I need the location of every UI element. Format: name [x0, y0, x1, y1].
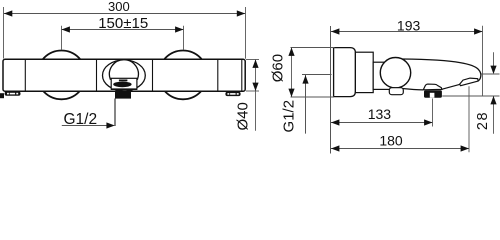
spout tongue: [460, 78, 479, 86]
spout top outline: [402, 59, 481, 81]
svg-text:G1/2: G1/2: [64, 111, 98, 128]
escutcheon (side): [334, 48, 356, 97]
cartridge circle: [380, 57, 410, 87]
under-spout hump: [423, 84, 442, 90]
dimension 300: [4, 7, 246, 59]
bar end inner line right: [241, 60, 243, 91]
dimension Ø60: [291, 48, 335, 98]
outlet fitting G1/2 (black): [115, 92, 131, 99]
body section: [373, 62, 396, 89]
spout front face: [111, 78, 137, 89]
escutcheon circle right: [159, 51, 208, 100]
face bottom thick line: [111, 88, 137, 90]
circle foot: [389, 88, 403, 95]
wall stub left edge: [0, 93, 4, 98]
right under-bar cap: [225, 92, 240, 96]
aerator nut (black): [424, 90, 442, 97]
svg-text:Ø40: Ø40: [234, 102, 251, 130]
dimension 28: [442, 52, 499, 134]
face dash: [119, 80, 128, 82]
bar division right: [217, 60, 219, 91]
spout dome: [109, 60, 138, 80]
escutcheon circle left: [37, 51, 86, 100]
svg-text:180: 180: [379, 133, 403, 149]
spout underside: [402, 84, 460, 90]
svg-text:150±15: 150±15: [98, 15, 148, 32]
left under-bar cap: [5, 92, 21, 96]
G1/2 leader (side): [305, 75, 307, 134]
dimension 180: [331, 86, 469, 152]
bar division left: [24, 60, 26, 91]
dimension 133: [331, 99, 433, 127]
G1/2 leader (front): [114, 99, 116, 127]
svg-text:G1/2: G1/2: [280, 100, 297, 133]
dimension 193: [331, 26, 483, 96]
spout flange ellipse (center): [103, 60, 146, 91]
bar body: [3, 59, 245, 91]
svg-text:193: 193: [397, 18, 421, 34]
svg-text:28: 28: [475, 111, 491, 130]
connector: [355, 52, 373, 92]
dimension Ø40: [246, 60, 259, 131]
dimension 150±15: [62, 26, 184, 50]
outlet dark ellipse: [113, 82, 131, 88]
svg-text:300: 300: [108, 0, 130, 14]
wall line: [330, 26, 332, 154]
pipe axis line (side): [302, 74, 332, 76]
bar division center-right: [152, 60, 154, 91]
bar division center-left: [96, 60, 98, 91]
svg-text:Ø60: Ø60: [270, 54, 287, 82]
svg-text:133: 133: [368, 106, 392, 122]
